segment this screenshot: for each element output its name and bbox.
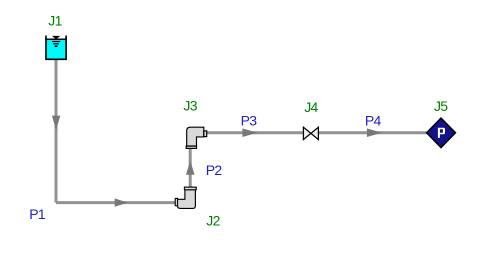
flow arrow P3 right <box>242 128 257 137</box>
wire P4 segment <box>319 131 428 134</box>
elbow J2 body <box>177 190 195 209</box>
flow arrow P1 right <box>115 198 128 206</box>
elbow J2 top flange <box>184 187 196 190</box>
reservoir J1 waterline <box>45 38 67 40</box>
reservoir J1 bottom <box>45 58 67 60</box>
flow arrow P4 right <box>367 128 382 137</box>
flow arrow P1 down <box>52 116 60 130</box>
svg-text:J2: J2 <box>206 212 220 228</box>
reservoir J1 level line 2 <box>53 43 59 45</box>
assigned pressure J5 letter P <box>438 128 445 138</box>
reservoir J1 tank fill <box>47 39 66 59</box>
svg-text:J5: J5 <box>434 98 448 114</box>
wire P1 vertical segment <box>55 60 58 203</box>
svg-text:J3: J3 <box>183 97 197 113</box>
wire P1 horizontal segment <box>56 201 176 204</box>
svg-text:P1: P1 <box>29 206 46 222</box>
elbow J2 left flange <box>175 198 177 205</box>
valve J4 right triangle <box>311 127 319 139</box>
svg-text:P3: P3 <box>241 113 258 129</box>
elbow J3 right flange <box>204 131 207 137</box>
wire P3 segment <box>207 131 304 134</box>
reservoir J1 level line 3 <box>55 45 58 47</box>
flow arrow P2 up <box>186 160 195 174</box>
assigned pressure J5 diamond <box>427 118 456 147</box>
elbow J3 body <box>187 127 204 146</box>
svg-text:J4: J4 <box>304 99 318 115</box>
reservoir J1 level triangle <box>52 36 60 39</box>
valve J4 left triangle <box>303 127 311 139</box>
svg-text:P2: P2 <box>206 162 223 178</box>
reservoir J1 right wall <box>65 36 67 60</box>
elbow J3 bottom flange <box>186 146 196 148</box>
svg-text:P4: P4 <box>365 113 382 129</box>
reservoir J1 level line 1 <box>52 41 60 43</box>
wire P2 vertical segment <box>189 148 192 188</box>
svg-text:J1: J1 <box>48 12 62 28</box>
reservoir J1 left wall <box>45 36 47 60</box>
